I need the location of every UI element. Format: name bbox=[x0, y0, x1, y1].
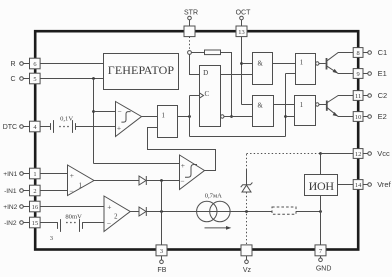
dotted wire reference horizontal bbox=[247, 153, 321, 155]
pin 2 -IN1 bbox=[4, 185, 40, 196]
svg-text:OCT: OCT bbox=[236, 10, 252, 17]
node junction riser to lower OR gate bbox=[284, 115, 287, 118]
svg-text:&: & bbox=[258, 61, 264, 68]
wire feedback vertical to FB pin bbox=[161, 181, 163, 245]
OR gate DD3 bbox=[296, 54, 319, 85]
svg-text:E2: E2 bbox=[378, 112, 387, 121]
svg-text:+IN2: +IN2 bbox=[3, 204, 17, 211]
wire OCT pin vertical bbox=[241, 37, 243, 105]
node junction Vz on current line bbox=[245, 210, 248, 213]
svg-text:2: 2 bbox=[33, 188, 36, 195]
wire phantom resistor to reference node bbox=[296, 211, 321, 213]
wire amplifier 1 output to feedback node bbox=[94, 180, 180, 182]
wire DD4 to transistor Q2 base bbox=[319, 104, 326, 106]
wire sawtooth to PWM comparator bbox=[94, 163, 180, 165]
wire -IN1 pin to amplifier 1 bbox=[40, 190, 67, 192]
pin 6 R bbox=[10, 58, 40, 69]
svg-text:1: 1 bbox=[33, 171, 36, 178]
svg-text:+: + bbox=[107, 202, 111, 211]
svg-text:&: & bbox=[258, 103, 264, 110]
svg-text:16: 16 bbox=[32, 204, 38, 211]
wire PWM comparator output to OR block second input bbox=[148, 128, 216, 171]
wire DTC pin to 0,1V battery bbox=[40, 126, 50, 128]
svg-text:+IN1: +IN1 bbox=[3, 171, 17, 178]
node junction feedback lower bbox=[160, 210, 163, 213]
wire R pin to oscillator bbox=[40, 63, 103, 65]
svg-text:ИОН: ИОН bbox=[309, 179, 335, 193]
transistor Q1 bbox=[327, 53, 354, 74]
svg-text:STR: STR bbox=[184, 10, 198, 17]
svg-text:12: 12 bbox=[355, 151, 361, 158]
battery 80mV bbox=[58, 214, 83, 232]
wire DT comparator output to OR block bbox=[142, 116, 158, 118]
svg-text:−: − bbox=[107, 219, 111, 228]
error amplifier 2 bbox=[104, 196, 130, 232]
PWM comparator U3 bbox=[180, 155, 205, 190]
node junction feedback upper bbox=[160, 179, 163, 182]
error amplifier 1 bbox=[68, 165, 95, 196]
wire DD2 output to DD4 bbox=[274, 104, 295, 106]
wire to lower OR gate second input bbox=[286, 116, 295, 118]
svg-text:−: − bbox=[69, 187, 73, 196]
node junction OCT line bbox=[240, 62, 243, 65]
svg-text:Vref: Vref bbox=[377, 180, 391, 189]
svg-text:C: C bbox=[204, 90, 209, 98]
svg-text:1: 1 bbox=[300, 60, 303, 67]
node junction at reference vertical bbox=[319, 210, 322, 213]
wire flip-flop Q output to upper AND gate bbox=[221, 74, 253, 76]
svg-text:−: − bbox=[117, 107, 121, 116]
wire to upper OR gate second input bbox=[286, 73, 296, 75]
DT comparator U2 bbox=[116, 102, 142, 137]
wire sawtooth vertical bbox=[93, 79, 95, 164]
svg-text:0,1V: 0,1V bbox=[60, 115, 73, 122]
wire OR output vertical branch bbox=[189, 96, 191, 137]
svg-text:2: 2 bbox=[114, 213, 118, 220]
zener diode VD3 bbox=[241, 169, 253, 192]
pin 1 +IN1 bbox=[3, 168, 40, 179]
wire reference node to ION box bbox=[320, 154, 322, 175]
phantom resistor dashed bbox=[272, 207, 296, 214]
node junction sawtooth to DT comparator bbox=[92, 110, 95, 113]
wire amplifier 2 output line bbox=[130, 211, 272, 213]
svg-text:E1: E1 bbox=[378, 69, 387, 78]
pin STR bbox=[184, 10, 198, 51]
resistor R1 bbox=[205, 50, 221, 55]
wire -IN2 pin to 80mV battery bbox=[40, 222, 57, 224]
svg-text:0,7мА: 0,7мА bbox=[205, 193, 222, 200]
svg-text:GND: GND bbox=[316, 265, 332, 272]
wire +IN2 pin to amplifier 2 bbox=[40, 206, 104, 208]
svg-text:3: 3 bbox=[160, 248, 163, 255]
current source 0,7mA bbox=[197, 193, 232, 230]
wire OCT to lower AND gate first input bbox=[242, 104, 253, 106]
pin 7 GND bbox=[315, 245, 331, 273]
svg-text:5: 5 bbox=[33, 76, 36, 83]
dotted wire zener bottom to Vz pin bbox=[246, 192, 248, 245]
svg-text:11: 11 bbox=[355, 93, 361, 100]
pin 8 C1 bbox=[353, 48, 387, 58]
svg-text:D: D bbox=[203, 69, 208, 77]
svg-text:C2: C2 bbox=[378, 91, 388, 100]
node junction OR output bbox=[188, 115, 191, 118]
svg-text:−: − bbox=[180, 176, 184, 185]
wire vertical riser to gates bbox=[285, 74, 287, 137]
svg-text:Vcc: Vcc bbox=[377, 149, 390, 158]
wire sawtooth to DT comparator inverting input bbox=[94, 111, 116, 113]
wire DD1 output to DD3 bbox=[273, 63, 296, 65]
OR block 1 bbox=[158, 106, 178, 138]
svg-text:+: + bbox=[181, 161, 185, 170]
svg-text:C1: C1 bbox=[378, 48, 388, 57]
IC body outline bbox=[35, 31, 358, 249]
OR gate DD4 bbox=[295, 96, 319, 126]
wire DD3 to transistor Q1 base bbox=[319, 63, 326, 65]
svg-text:9: 9 bbox=[356, 71, 359, 78]
wire +IN1 pin to amplifier 1 bbox=[40, 173, 67, 175]
svg-text:1: 1 bbox=[78, 182, 81, 189]
transistor Q2 bbox=[327, 96, 353, 117]
wire ION bottom to GND pin bbox=[320, 196, 322, 245]
wire resistor to flip-flop output line bbox=[221, 53, 232, 117]
pin 13 OCT bbox=[236, 10, 252, 37]
node junction reference line bbox=[319, 152, 322, 155]
node junction on C wire bbox=[92, 77, 95, 80]
battery 0,1V bbox=[51, 115, 76, 132]
wire node to flip-flop D input bbox=[190, 54, 200, 74]
svg-text:80mV: 80mV bbox=[65, 214, 82, 221]
voltage reference box ИОН bbox=[305, 175, 338, 196]
svg-text:6: 6 bbox=[33, 61, 36, 68]
svg-text:-IN1: -IN1 bbox=[4, 188, 17, 195]
diode VD1 bbox=[139, 176, 146, 185]
pin 11 C2 bbox=[353, 91, 387, 101]
svg-text:1: 1 bbox=[300, 102, 303, 109]
svg-text:R: R bbox=[10, 61, 15, 68]
pin 3 FB bbox=[156, 245, 167, 274]
wire OR block output bbox=[178, 116, 190, 118]
pin 9 E1 bbox=[353, 69, 387, 79]
svg-text:C: C bbox=[10, 76, 15, 83]
svg-text:-IN2: -IN2 bbox=[4, 220, 17, 227]
pin 15 -IN2 bbox=[4, 217, 40, 228]
dotted wire zener top to reference line bbox=[246, 154, 248, 169]
node junction resistor line on Q-bar wire bbox=[230, 115, 233, 118]
svg-text:Vz: Vz bbox=[243, 267, 252, 274]
pin 12 Vcc bbox=[353, 149, 390, 159]
D flip-flop T1 bbox=[200, 66, 225, 127]
AND gate DD1 bbox=[253, 53, 273, 85]
wire battery to amplifier 2 inverting input bbox=[83, 222, 105, 224]
pin 14 Vref bbox=[353, 180, 391, 190]
diode VD2 bbox=[139, 207, 146, 216]
wire node to resistor bbox=[191, 52, 204, 54]
pin Vz bbox=[241, 245, 252, 274]
svg-text:+: + bbox=[117, 123, 121, 132]
wire under-route to output gates bbox=[190, 136, 286, 138]
svg-text:DTC: DTC bbox=[3, 124, 17, 131]
wire battery to DT comparator noninverting input bbox=[76, 126, 116, 128]
svg-text:1: 1 bbox=[161, 113, 164, 120]
pin 5 C bbox=[10, 73, 40, 84]
svg-text:ГЕНЕРАТОР: ГЕНЕРАТОР bbox=[108, 63, 175, 77]
wire flip-flop Q-bar output to lower AND gate bbox=[224, 116, 253, 118]
wire reference node to Vcc pin 12 bbox=[321, 153, 354, 155]
svg-text:FB: FB bbox=[157, 267, 166, 274]
pin 16 +IN2 bbox=[3, 201, 40, 212]
svg-text:8: 8 bbox=[356, 50, 359, 57]
AND gate DD2 bbox=[253, 96, 274, 127]
wire ION to Vref pin 14 bbox=[338, 184, 354, 186]
oscillator box ГЕНЕРАТОР bbox=[104, 54, 179, 90]
STR pull-up node bbox=[188, 51, 192, 55]
wire OCT to upper AND gate first input bbox=[242, 63, 253, 65]
svg-text:14: 14 bbox=[355, 182, 362, 189]
wire C pin to oscillator bbox=[40, 78, 103, 80]
svg-text:15: 15 bbox=[32, 220, 38, 227]
svg-text:10: 10 bbox=[355, 114, 361, 121]
svg-text:+: + bbox=[70, 171, 74, 180]
pin 4 DTC bbox=[3, 121, 40, 132]
pin 10 E2 bbox=[353, 112, 387, 122]
wire to flip-flop clock input bbox=[190, 95, 200, 97]
svg-text:13: 13 bbox=[238, 29, 244, 36]
